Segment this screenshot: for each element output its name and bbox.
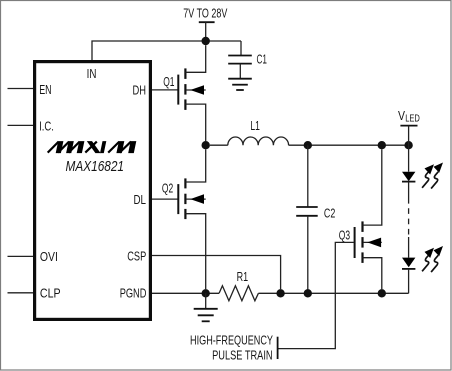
node CSP junction [276,289,284,297]
svg-text:IN: IN [87,66,97,81]
pin CLP [8,285,61,300]
node C2 bottom junction [304,289,312,297]
svg-text:R1: R1 [237,269,249,284]
svg-text:Q1: Q1 [163,74,174,89]
op-amp U1 MAX16821 IC box [35,62,151,320]
pin OVI [8,249,58,264]
svg-text:CLP: CLP [40,285,61,300]
label HIGH-FREQUENCY PULSE TRAIN [190,333,278,363]
LED D1 [402,145,415,198]
svg-text:Q3: Q3 [339,228,350,243]
LED D2 [402,237,415,293]
wire Q3 gate feed [278,242,354,348]
wire ground rail PGND [152,292,219,294]
svg-text:V: V [398,108,405,123]
wire output rail [289,144,409,146]
inductor L1 [210,118,289,145]
wire dashed LED string [408,198,410,237]
wire top supply rail [92,41,241,61]
node VLED terminal [398,108,420,145]
node VIN supply terminal 7V TO 28V [183,6,227,42]
ground (C1) [228,79,252,90]
svg-text:HIGH-FREQUENCY: HIGH-FREQUENCY [190,333,273,348]
transistor Q3 [339,149,382,289]
svg-text:OVI: OVI [40,249,58,264]
capacitor C2 [296,145,335,293]
LED D2 light arrows [422,255,438,273]
svg-text:DH: DH [133,83,147,98]
svg-text:MAX16821: MAX16821 [66,158,125,175]
node switch junction [202,141,210,149]
svg-text:CSP: CSP [127,249,146,264]
svg-text:C2: C2 [324,206,335,221]
transistor Q2 [162,149,206,289]
node Q3 source junction [378,289,386,297]
svg-text:LED: LED [405,114,420,125]
pin I.C. [8,118,54,133]
node C2 top junction [304,141,312,149]
svg-text:PGND: PGND [120,286,147,301]
node VLED junction [404,141,412,149]
svg-text:7V TO 28V: 7V TO 28V [183,6,227,21]
svg-text:I.C.: I.C. [39,118,54,133]
svg-text:DL: DL [134,192,147,207]
LED D1 light arrows [422,171,438,189]
node supply junction [202,37,210,45]
svg-text:L1: L1 [250,118,260,133]
ground (PGND) [194,293,218,321]
capacitor C1 [228,41,267,79]
node Q3 drain junction [378,141,386,149]
wire CSP [152,256,281,290]
wire DL gate [152,198,178,200]
node PGND junction [202,289,210,297]
pin EN [8,82,52,97]
svg-text:PULSE TRAIN: PULSE TRAIN [212,348,273,363]
transistor Q1 [163,45,206,141]
resistor R1 [219,269,258,301]
wire DH gate [152,89,178,91]
wire ground rail right [258,292,408,294]
svg-text:C1: C1 [257,51,268,66]
svg-text:Q2: Q2 [162,181,173,196]
MAXIM logo [48,141,137,153]
svg-text:EN: EN [39,82,51,97]
